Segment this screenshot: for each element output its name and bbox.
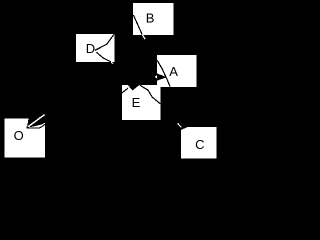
arrow at O: lower black barb curve <box>27 124 45 128</box>
arrow at O: tip blob <box>26 126 28 128</box>
wire edge E-C segment inside E <box>140 85 161 104</box>
wire edge D-E white tail below D corner <box>111 62 113 64</box>
svg-text:E: E <box>132 95 141 110</box>
svg-text:O: O <box>14 128 24 143</box>
node O <box>5 118 46 157</box>
node D <box>76 34 115 62</box>
arrow at O: white diagonal line <box>27 115 45 128</box>
wire edge A-C segment inside A <box>157 60 170 86</box>
arrowhead at A pointing right <box>157 73 167 80</box>
svg-text:C: C <box>195 137 204 152</box>
svg-text:D: D <box>86 41 95 56</box>
wire edge D-E segment inside D <box>97 52 111 62</box>
wire edge B-D white tail below B <box>142 35 145 39</box>
wire edge E-C black corner wedge inside C <box>181 127 187 130</box>
node B <box>133 3 174 35</box>
svg-text:B: B <box>146 10 155 25</box>
wire edge B-D segment inside B <box>133 15 142 35</box>
svg-text:A: A <box>169 64 178 79</box>
wire edge into A white back-wedge of arrowhead <box>155 75 157 79</box>
wire edge into E from left inside E <box>122 88 128 93</box>
node A <box>157 55 196 87</box>
node E <box>122 85 161 120</box>
arrowhead at E pointing down <box>127 84 141 91</box>
node C <box>181 127 216 159</box>
wire edge E-C white tail above C corner <box>178 123 182 127</box>
arrow at O: black mass over top-right corner of O <box>27 118 45 127</box>
wire edge E-A white tick above E corner <box>160 82 162 85</box>
wire edge B-D segment inside D <box>95 34 114 50</box>
